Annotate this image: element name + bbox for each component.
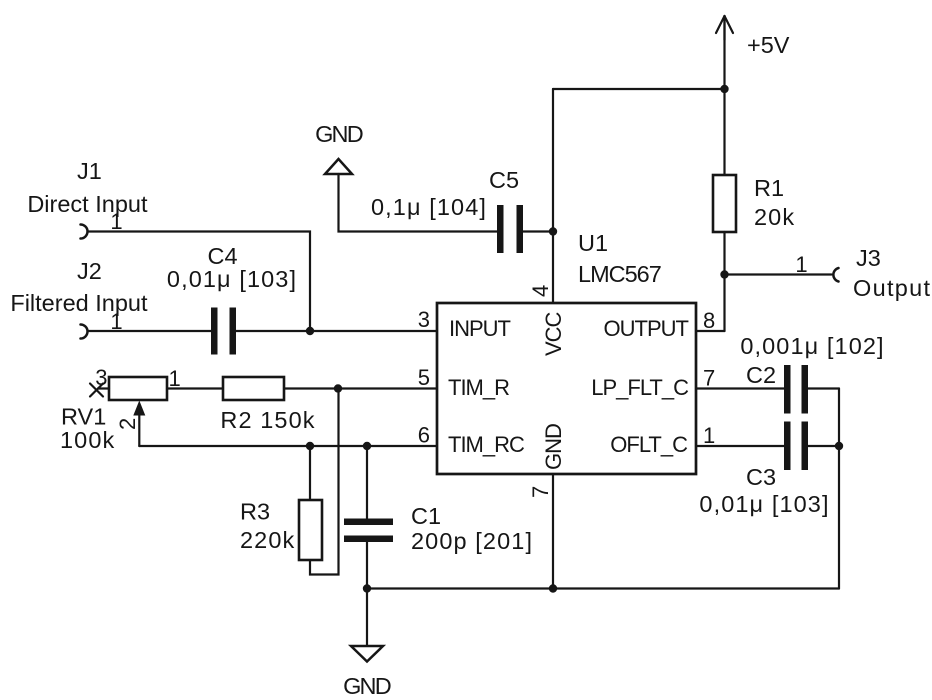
svg-text:LMC567: LMC567: [578, 261, 661, 287]
svg-text:J1: J1: [77, 158, 102, 184]
svg-text:GND: GND: [315, 121, 363, 147]
wire OUTPUT to node: [696, 330, 725, 332]
capacitor C5: [497, 205, 523, 253]
node VCC junction: [549, 227, 557, 235]
U1 reference labels: [578, 230, 661, 287]
capacitor C2: [784, 365, 808, 414]
svg-text:3: 3: [418, 307, 430, 332]
J2 labels: [10, 258, 148, 316]
wire R2 to TIM_R: [284, 387, 437, 389]
svg-text:Filtered Input: Filtered Input: [10, 290, 148, 316]
svg-text:1: 1: [169, 366, 181, 391]
power +5V: [716, 16, 733, 40]
wire LP_FLT_C to C2: [696, 387, 785, 389]
svg-text:TIM_R: TIM_R: [448, 375, 509, 400]
wire GND to C5: [339, 174, 498, 232]
svg-text:7: 7: [528, 486, 553, 498]
svg-text:R1: R1: [754, 175, 784, 201]
svg-text:OUTPUT: OUTPUT: [604, 316, 689, 341]
svg-text:1: 1: [703, 423, 715, 448]
C4 labels: [167, 243, 297, 292]
RV1 labels: [60, 404, 115, 454]
resistor R1: [713, 175, 736, 232]
capacitor C1: [344, 446, 393, 589]
svg-text:INPUT: INPUT: [449, 316, 511, 341]
svg-text:8: 8: [703, 308, 715, 333]
svg-text:U1: U1: [578, 230, 608, 256]
svg-text:Output: Output: [853, 275, 931, 301]
C1 labels: [411, 503, 533, 554]
wire J2 to C4: [88, 330, 212, 332]
svg-text:J2: J2: [77, 258, 102, 284]
svg-text:0,1μ [104]: 0,1μ [104]: [371, 194, 487, 220]
wire TIM_RC: [139, 445, 437, 447]
RV1 pin labels: [95, 365, 181, 430]
svg-text:200p [201]: 200p [201]: [411, 528, 533, 554]
connector J1: [81, 225, 88, 239]
svg-text:C5: C5: [489, 167, 519, 193]
node ground C1 junction: [363, 584, 371, 592]
svg-text:VCC: VCC: [541, 311, 566, 356]
svg-text:0,001μ [102]: 0,001μ [102]: [740, 333, 884, 359]
wire TIM_R to R3 bottom: [310, 389, 339, 575]
C3 labels: [699, 464, 829, 517]
capacitor C4: [211, 308, 236, 355]
svg-text:0,01μ [103]: 0,01μ [103]: [699, 491, 829, 517]
wire right rail vertical: [838, 389, 840, 589]
power GND top: [325, 159, 352, 174]
wire RV1 to R2: [167, 387, 223, 389]
svg-text:GND: GND: [541, 424, 566, 470]
connector J3: [833, 268, 838, 282]
svg-text:100k: 100k: [60, 427, 115, 453]
svg-text:20k: 20k: [754, 204, 795, 230]
svg-text:OFLT_C: OFLT_C: [610, 432, 688, 457]
IC U1: [437, 303, 696, 474]
node ground U1 junction: [549, 584, 557, 592]
wire OFLT_C to C3: [696, 445, 785, 447]
svg-text:2: 2: [115, 418, 140, 430]
svg-text:LP_FLT_C: LP_FLT_C: [591, 375, 689, 400]
node +5V junction: [720, 85, 728, 93]
wire C5 to VCC: [523, 230, 553, 232]
wire ground bus: [367, 587, 839, 589]
wire ground stub: [366, 589, 368, 647]
power GND bottom: [351, 646, 383, 662]
J1 labels: [27, 158, 148, 217]
R1 labels: [754, 175, 795, 230]
svg-text:TIM_RC: TIM_RC: [448, 432, 525, 457]
node output junction: [720, 270, 728, 278]
wire R1 to output node: [723, 232, 725, 331]
node right rail junction: [835, 442, 843, 450]
svg-text:C1: C1: [411, 503, 441, 529]
wire VCC vertical: [552, 89, 554, 303]
svg-text:5: 5: [418, 365, 430, 390]
svg-text:3: 3: [95, 365, 107, 390]
wire GND pin: [552, 474, 554, 589]
svg-text:7: 7: [703, 366, 715, 391]
node A junction: [306, 327, 314, 335]
wire J1 to node A: [88, 232, 311, 332]
J3 labels: [853, 245, 931, 301]
svg-text:J3: J3: [856, 245, 881, 271]
resistor R3: [299, 446, 322, 560]
svg-text:4: 4: [528, 285, 553, 297]
R3 labels: [240, 499, 295, 554]
wire C2 to right rail: [808, 387, 840, 389]
svg-text:Direct Input: Direct Input: [27, 191, 148, 217]
svg-text:220k: 220k: [240, 527, 295, 553]
node TIM_RC junction R3: [306, 442, 314, 450]
wire +5V to R1: [723, 16, 725, 175]
U1 pin names: [448, 311, 689, 470]
svg-text:C2: C2: [746, 362, 776, 388]
wire C4 to INPUT: [236, 330, 437, 332]
resistor R2: [223, 377, 284, 400]
node TIM_R junction: [334, 384, 342, 392]
potentiometer RV1: [98, 377, 167, 446]
svg-text:R3: R3: [240, 499, 270, 525]
wire C3 to right rail: [808, 445, 840, 447]
svg-text:1: 1: [795, 252, 807, 277]
node TIM_RC junction C1: [363, 442, 371, 450]
svg-text:GND: GND: [343, 673, 391, 699]
wire +5V rail to VCC: [553, 88, 725, 90]
svg-text:C3: C3: [746, 464, 776, 490]
C5 labels: [371, 167, 519, 220]
svg-text:1: 1: [110, 209, 122, 234]
svg-text:RV1: RV1: [61, 404, 106, 430]
svg-text:0,01μ [103]: 0,01μ [103]: [167, 266, 297, 292]
wire output to J3: [725, 273, 832, 275]
svg-text:R2 150k: R2 150k: [220, 407, 315, 433]
capacitor C3: [784, 422, 808, 471]
C2 labels: [740, 333, 884, 388]
connector J2: [81, 325, 88, 339]
svg-text:+5V: +5V: [747, 32, 790, 58]
no-connect X on RV1 pin 3: [90, 384, 103, 397]
svg-text:6: 6: [418, 423, 430, 448]
